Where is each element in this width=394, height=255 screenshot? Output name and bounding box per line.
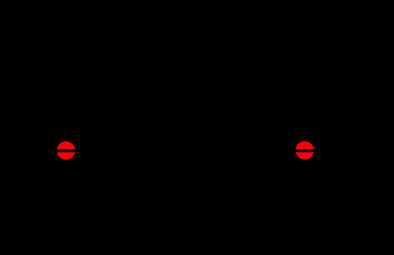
wire	[295, 149, 370, 152]
wire over lamp DS2	[295, 150, 315, 153]
ground	[183, 220, 207, 242]
wire over lamp DS1	[56, 150, 76, 153]
wire	[20, 151, 370, 221]
wire	[220, 149, 316, 152]
wire	[20, 149, 57, 152]
battery V1	[10, 120, 30, 220]
lamp DS1	[57, 141, 75, 159]
lamp DS2	[296, 141, 314, 159]
resistor R1	[150, 144, 220, 157]
wire	[55, 149, 150, 152]
